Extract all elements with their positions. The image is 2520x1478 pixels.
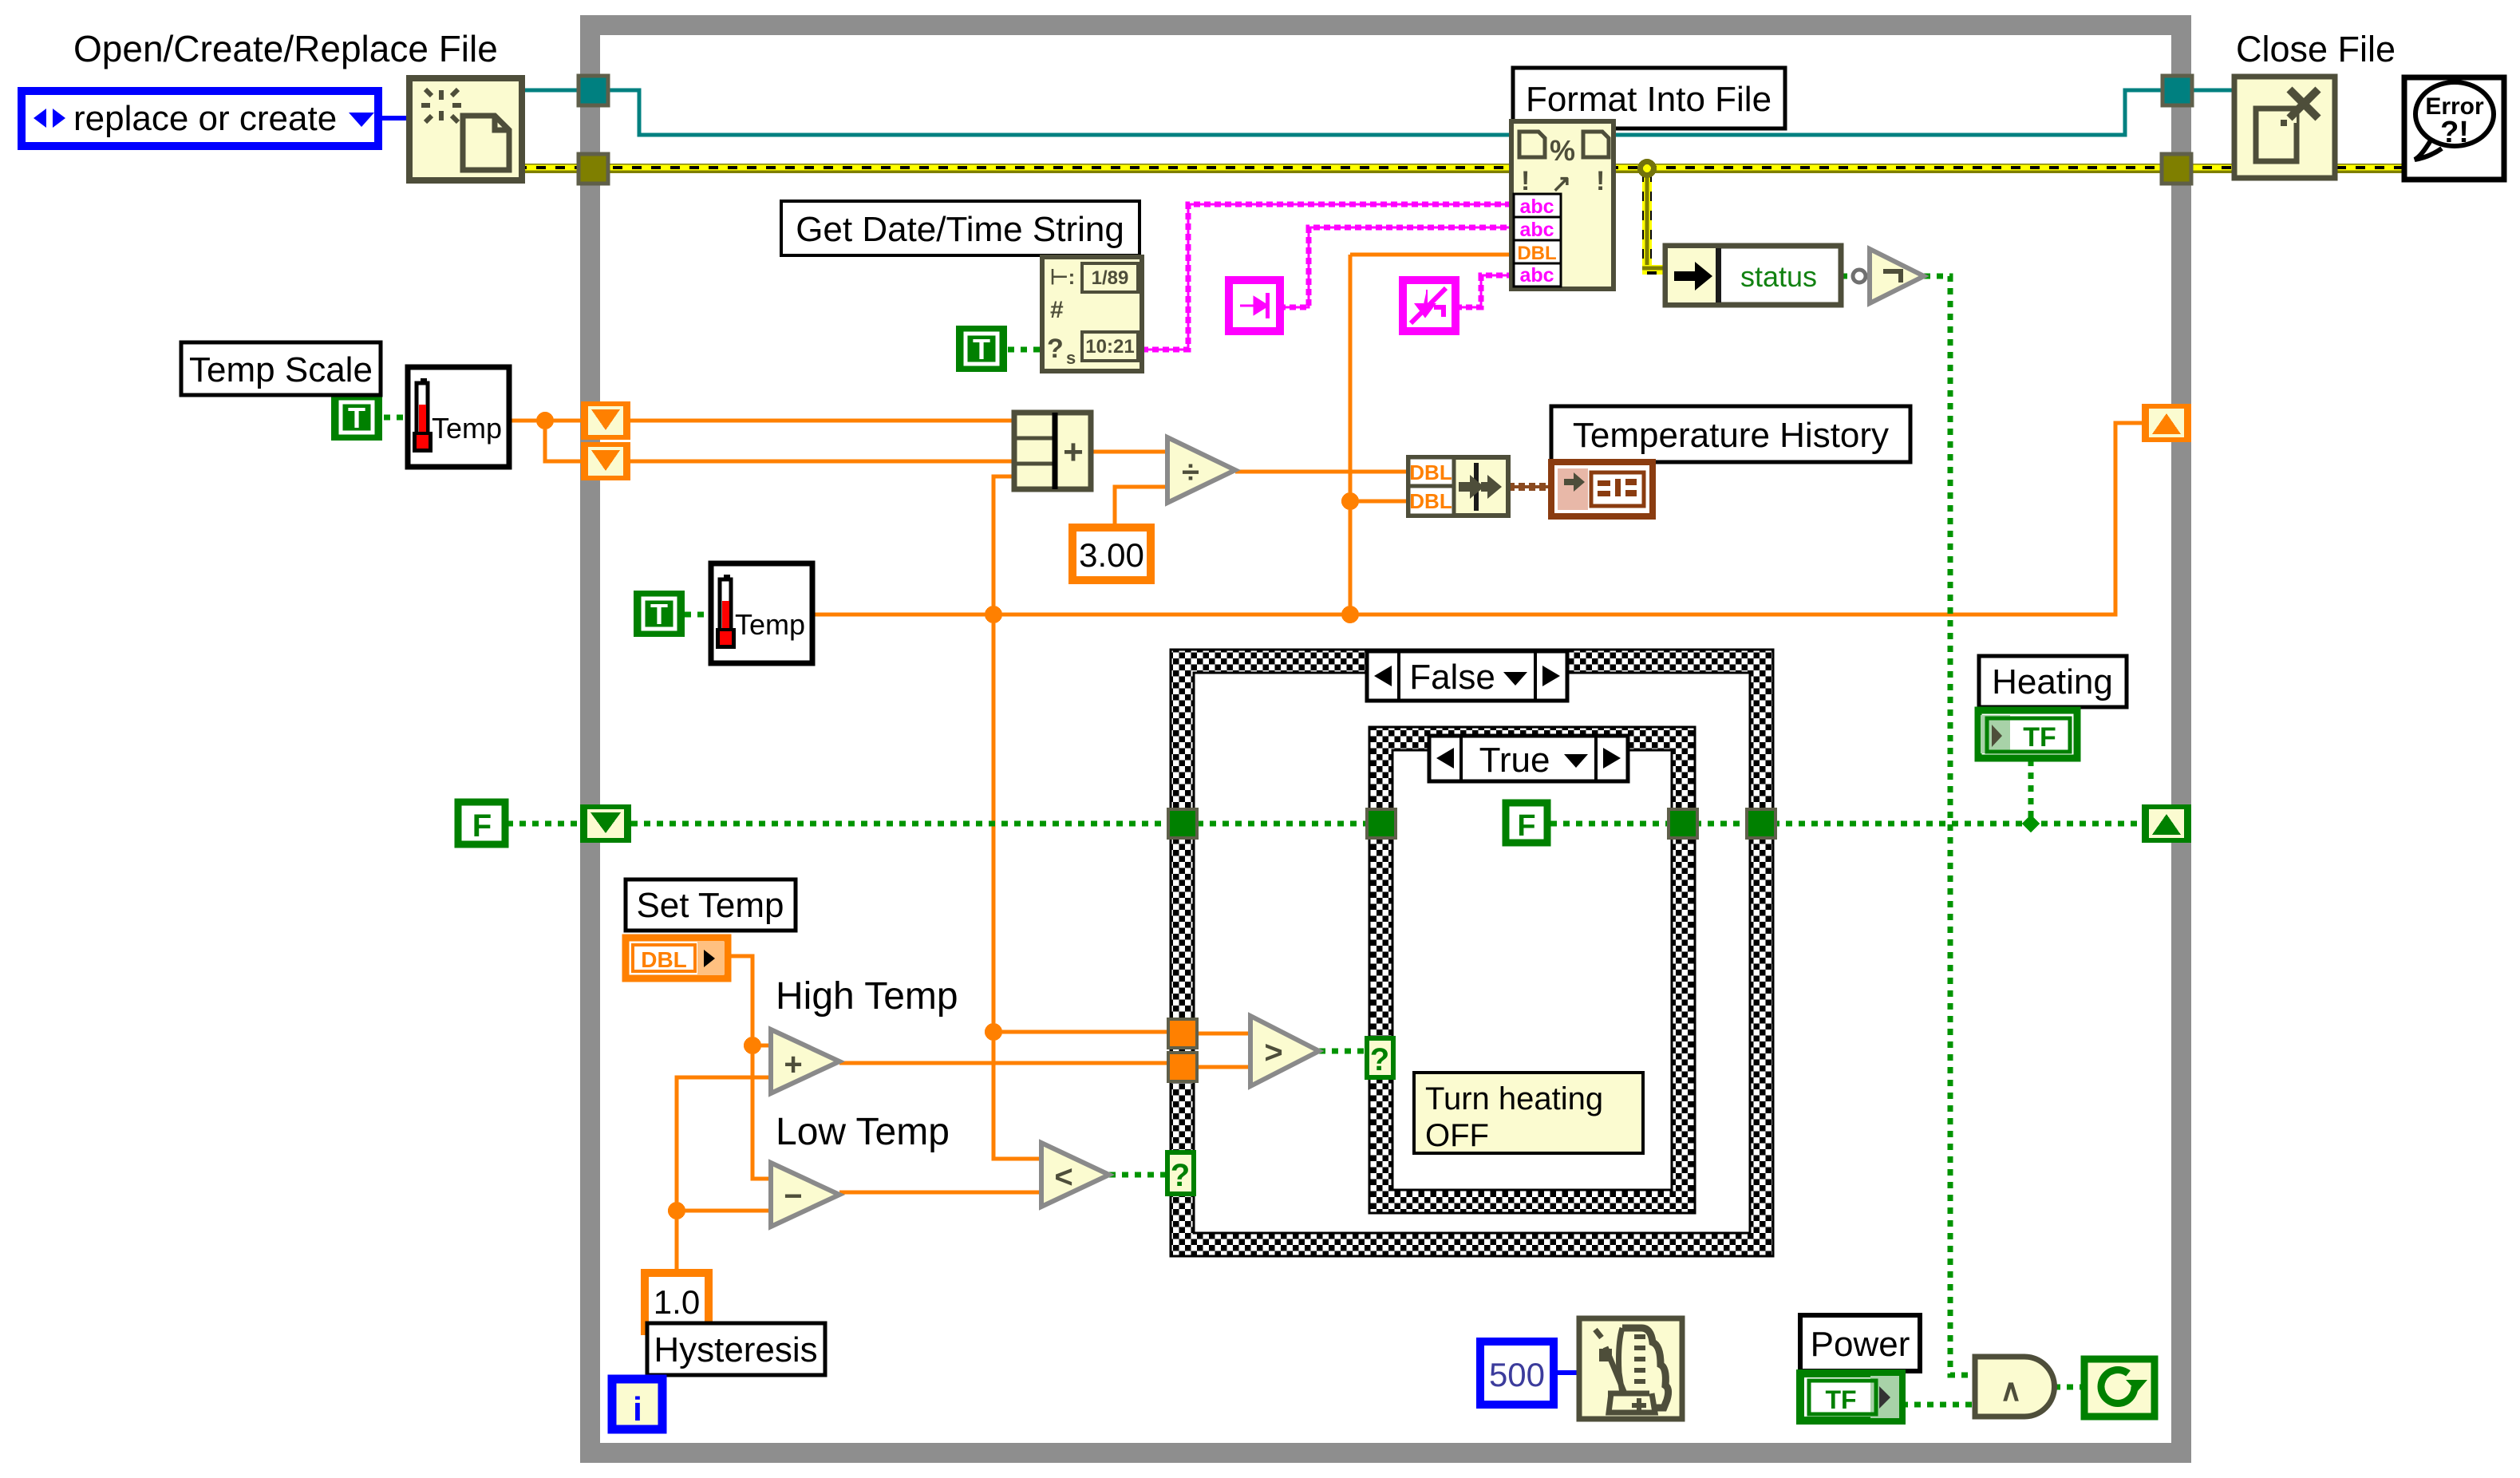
svg-text:DBL: DBL [1409,489,1452,513]
svg-text:Heating: Heating [1992,662,2113,701]
svg-text:High Temp: High Temp [776,975,958,1018]
svg-text:status: status [1740,260,1817,293]
svg-text:Temp Scale: Temp Scale [189,350,373,389]
svg-text:Temp: Temp [735,608,805,641]
svg-text:3.00: 3.00 [1079,536,1144,574]
svg-text:?: ? [1171,1158,1190,1193]
svg-text:abc: abc [1519,264,1554,287]
svg-text:Power: Power [1811,1325,1910,1364]
svg-text:T: T [348,401,365,434]
svg-text:i: i [633,1390,642,1428]
svg-text:Turn heating: Turn heating [1425,1081,1603,1116]
svg-text:OFF: OFF [1425,1118,1489,1153]
svg-text:Temperature History: Temperature History [1573,416,1889,455]
svg-text:abc: abc [1519,196,1554,218]
svg-text:÷: ÷ [1182,455,1199,490]
svg-text:True: True [1479,741,1550,780]
svg-text:abc: abc [1519,219,1554,241]
svg-text:T: T [973,333,990,366]
svg-text:DBL: DBL [1517,243,1556,264]
svg-text:Open/Create/Replace File: Open/Create/Replace File [73,28,498,69]
svg-text:!: ! [1596,166,1605,196]
svg-text:>: > [1264,1035,1282,1070]
svg-text:+: + [784,1047,802,1082]
svg-text:Set Temp: Set Temp [636,886,784,925]
svg-text:Get Date/Time String: Get Date/Time String [796,210,1124,249]
svg-text:!: ! [1521,166,1530,196]
svg-text:?: ? [1370,1042,1389,1077]
svg-text:−: − [784,1179,802,1214]
svg-text:DBL: DBL [641,947,687,972]
svg-text:⊢:: ⊢: [1050,265,1075,289]
svg-text:10:21: 10:21 [1085,336,1134,358]
svg-text:#: # [1050,297,1064,323]
svg-text:False: False [1409,658,1495,697]
svg-text:TF: TF [2023,722,2056,753]
svg-text:s: s [1066,348,1076,368]
svg-text:Format Into File: Format Into File [1526,80,1772,119]
svg-text:DBL: DBL [1409,460,1452,484]
svg-text:∧: ∧ [2000,1374,2022,1408]
svg-text:%: % [1550,134,1575,167]
svg-text:Hysteresis: Hysteresis [654,1330,817,1369]
svg-text:TF: TF [1825,1385,1856,1414]
svg-text:500: 500 [1489,1356,1545,1393]
svg-text:1/89: 1/89 [1092,267,1129,289]
svg-text:F: F [1517,809,1535,843]
svg-text:Close File: Close File [2236,29,2396,69]
svg-text:T: T [650,598,668,630]
svg-text:?!: ?! [2440,116,2469,149]
svg-text:F: F [472,808,492,844]
svg-text:+: + [1063,433,1084,472]
svg-text:Temp: Temp [432,412,502,445]
svg-text:Low Temp: Low Temp [776,1111,950,1153]
svg-text:replace or create: replace or create [73,99,337,138]
svg-text:1.0: 1.0 [654,1283,700,1321]
svg-text:<: < [1054,1160,1072,1195]
svg-text:?: ? [1047,334,1064,364]
